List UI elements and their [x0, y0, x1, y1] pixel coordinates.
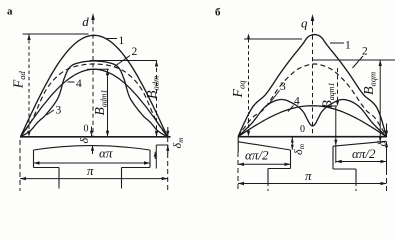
- leader + label 1 (plot b): [330, 42, 344, 44]
- leader + label 3 (plot b): [269, 91, 280, 105]
- svg-text:2: 2: [132, 46, 138, 58]
- svg-text:π: π: [305, 168, 312, 183]
- pole shoe bottom left segment: [34, 167, 60, 169]
- svg-text:απ/2: απ/2: [245, 148, 269, 163]
- svg-text:1: 1: [345, 40, 351, 52]
- B_aqm dimension line: [379, 60, 381, 142]
- pi left extension line (plot b): [237, 152, 239, 191]
- curve 2: dashed field curve (plot b): [238, 64, 387, 137]
- svg-text:3: 3: [280, 81, 286, 93]
- svg-text:4: 4: [294, 96, 300, 108]
- leader + label 2: [115, 56, 131, 67]
- delta dimension at right end (pole centre, plot b): [386, 124, 388, 137]
- delta_m arrows at right end: [167, 127, 169, 136]
- leader + label 2 (plot b): [353, 56, 364, 68]
- curve 1: MMF F_aq sinusoid: [238, 35, 387, 137]
- baseline (plot b): [238, 136, 387, 138]
- left pole body edge: [267, 169, 269, 183]
- right pole shoe (plot b): top surface: [333, 141, 387, 146]
- leader + label 4 (plot b): [288, 106, 294, 112]
- B_adm dimension line: [156, 61, 158, 137]
- curve 3: actual field curve B_aq (two humps): [238, 100, 387, 137]
- pole shoe of plot a: arc top: [34, 146, 151, 150]
- alpha-pi/2 dimension for left shoe: [238, 163, 291, 165]
- svg-text:0: 0: [84, 124, 89, 135]
- svg-text:4: 4: [76, 78, 82, 90]
- svg-text:d: d: [82, 14, 89, 29]
- d-axis (dashed vertical with arrow): [92, 20, 94, 137]
- small up arrow at shoe corner: [154, 152, 156, 159]
- svg-text:απ: απ: [99, 146, 113, 161]
- q-axis (dashed vertical with arrow): [312, 21, 314, 137]
- curve 3: actual field curve B_ad: [21, 61, 168, 137]
- extension line from right shoe surface: [335, 146, 337, 163]
- pi right extension line: [167, 137, 169, 191]
- svg-text:1: 1: [119, 35, 125, 47]
- pi left extension line: [19, 140, 21, 191]
- svg-text:2: 2: [362, 46, 368, 58]
- F_ad dimension line: [28, 34, 30, 137]
- pole body left edge: [58, 168, 60, 185]
- curve 4: fundamental of field curve: [21, 69, 168, 137]
- right pole body edge: [355, 169, 357, 182]
- F_aq dimension line: [248, 39, 250, 137]
- leader + label 4: [68, 81, 75, 83]
- right shoe left edge: [332, 146, 334, 169]
- curve 4: fundamental of B_aq: [238, 106, 387, 137]
- pole shoe bottom right segment: [122, 167, 151, 169]
- svg-text:π: π: [87, 163, 94, 178]
- svg-text:а: а: [7, 6, 13, 18]
- delta_m dimension at left shoe tip (plot b): [291, 138, 293, 150]
- extension bracket of pole-surface level: [156, 144, 168, 146]
- svg-text:απ/2: απ/2: [352, 146, 376, 161]
- F_aq top level line: [244, 38, 302, 40]
- svg-text:q: q: [301, 16, 308, 31]
- svg-text:δ: δ: [375, 141, 389, 147]
- pole shoe left edge: [33, 150, 35, 168]
- pole shoe right edge: [149, 150, 151, 168]
- curve 1: MMF F_ad sinusoid: [21, 35, 168, 137]
- pole body right edge: [121, 168, 123, 185]
- B_adm1 level line: [87, 68, 109, 70]
- F_ad top level line: [23, 33, 89, 35]
- curve 2: dashed field curve (uniform gap): [21, 64, 168, 137]
- svg-text:3: 3: [56, 105, 62, 117]
- leader + label 3: [47, 110, 55, 115]
- air-gap delta dimension at pole centre: [91, 127, 93, 137]
- baseline (armature surface, plot a): [20, 136, 171, 138]
- B_aqm level line: [313, 59, 395, 61]
- right shoe bottom: [333, 168, 356, 170]
- left shoe right edge: [290, 150, 292, 169]
- B_adm level line: [90, 60, 157, 62]
- pi right extension line (plot b): [386, 155, 388, 170]
- leader + label 1: [106, 38, 117, 40]
- alpha-pi dimension (pole arc width): [34, 162, 151, 164]
- B_adm1 dimension line: [107, 69, 109, 137]
- B_aqm1 dimension line: [337, 68, 339, 100]
- B_aqm1 level line: [306, 105, 337, 107]
- svg-text:0: 0: [300, 124, 305, 135]
- left pole shoe (plot b): top surface: [239, 142, 291, 150]
- svg-text:б: б: [215, 7, 221, 19]
- left shoe bottom: [268, 168, 291, 170]
- svg-text:δ: δ: [77, 138, 91, 144]
